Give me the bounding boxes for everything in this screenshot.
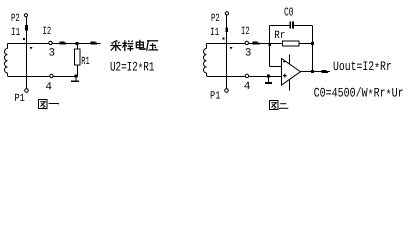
- op-amp U1: [282, 55, 301, 91]
- resistor R1: [76, 44, 78, 50]
- svg-text:Rr: Rr: [274, 30, 285, 42]
- terminal 4 fig2: [245, 74, 248, 77]
- terminal 4: [50, 74, 53, 77]
- svg-text:P2: P2: [211, 13, 220, 25]
- svg-text:I2: I2: [43, 26, 52, 38]
- resistor Rr: [283, 41, 300, 46]
- capacitor C0: [290, 22, 293, 29]
- junction dot top of R1: [76, 42, 79, 45]
- polarity dot primary fig2: [223, 37, 225, 39]
- svg-text:P1: P1: [210, 91, 221, 103]
- svg-text:U2=I2*R1: U2=I2*R1: [110, 60, 155, 77]
- svg-text:I1: I1: [210, 27, 220, 39]
- wire: inverting input: [270, 66, 282, 68]
- power stubs: [289, 55, 291, 91]
- terminal P1 fig2: [225, 89, 229, 93]
- ground fig2: [268, 77, 270, 83]
- junction dot Rr-right vertical: [311, 42, 314, 45]
- polarity dot secondary fig2: [230, 47, 233, 50]
- wire: secondary top to feedback node: [207, 43, 270, 45]
- terminal 3: [49, 41, 52, 44]
- wire: primary vertical P2-P1: [26, 17, 28, 89]
- plus sign: [283, 74, 287, 78]
- char 电: [136, 40, 145, 50]
- char 样: [122, 40, 133, 51]
- arrow I1 fig2: [225, 28, 228, 33]
- transformer T2 secondary winding (left coil): [203, 44, 206, 77]
- wire: C0 branch top right: [294, 25, 313, 27]
- svg-text:P1: P1: [14, 93, 25, 105]
- terminal P2: [24, 14, 27, 17]
- svg-text:C0: C0: [284, 6, 294, 20]
- svg-text:I2: I2: [241, 26, 250, 38]
- wire: secondary top (pin3 net): [8, 43, 101, 45]
- wire: primary vertical P2-P1: [226, 15, 228, 89]
- svg-text:I1: I1: [11, 27, 21, 39]
- junction dot bottom of R1: [74, 75, 77, 78]
- wire: feedback left vertical: [269, 26, 271, 67]
- arrow I1 (current direction, down): [25, 25, 28, 31]
- junction dot feedback node: [269, 44, 271, 46]
- polarity dot secondary: [30, 47, 33, 50]
- minus sign: [283, 61, 286, 63]
- terminal P2 fig2: [225, 12, 228, 15]
- svg-text:3: 3: [49, 47, 56, 59]
- wire: output: [301, 71, 331, 73]
- caption 图二: [270, 101, 289, 110]
- terminal P1: [25, 89, 29, 93]
- arrow I2 fig2: [253, 41, 260, 44]
- junction dot output-feedback: [311, 70, 314, 73]
- wire: C0 branch top left: [270, 25, 291, 27]
- arrow I2 (on top wire, right): [60, 41, 67, 44]
- svg-text:3: 3: [245, 47, 252, 59]
- svg-text:Uout=I2*Rr: Uout=I2*Rr: [333, 59, 392, 76]
- svg-text:4: 4: [45, 82, 52, 94]
- svg-text:4: 4: [244, 81, 251, 93]
- svg-text:R1: R1: [81, 56, 90, 68]
- transformer T1 secondary winding (left coil): [4, 44, 7, 77]
- arrow at end of top wire: [90, 41, 97, 44]
- junction dot ground node: [267, 74, 270, 77]
- wire: secondary bottom to opamp +: [207, 76, 282, 78]
- arrow output: [322, 70, 329, 73]
- terminal 3 fig2: [245, 41, 248, 44]
- wire: feedback right vertical down to output: [312, 26, 314, 72]
- svg-text:P2: P2: [11, 13, 20, 25]
- caption 图一: [39, 100, 59, 109]
- ground fig1: [75, 77, 77, 81]
- chinese text 采样电压 (sampling voltage): [110, 40, 158, 51]
- char 压: [147, 41, 159, 51]
- wire: Rr branch right: [299, 43, 313, 45]
- svg-text:C0=4500/W*Rr*Ur: C0=4500/W*Rr*Ur: [314, 86, 404, 103]
- polarity dot primary: [23, 38, 25, 40]
- wire: Rr branch left (from node to box): [270, 43, 283, 45]
- char 采: [110, 41, 121, 52]
- wire: secondary bottom (pin4 net): [8, 76, 79, 78]
